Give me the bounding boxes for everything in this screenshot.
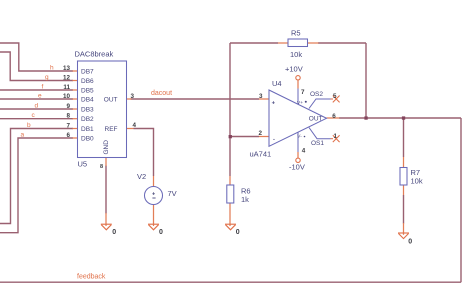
svg-text:dacout: dacout [151, 90, 172, 97]
svg-text:3: 3 [131, 93, 135, 100]
svg-text:1k: 1k [241, 195, 249, 204]
svg-text:10k: 10k [411, 177, 423, 186]
svg-text:V2: V2 [137, 172, 146, 181]
svg-text:0: 0 [112, 229, 116, 236]
svg-text:GND: GND [103, 140, 110, 155]
svg-text:7: 7 [301, 89, 305, 96]
svg-text:0: 0 [159, 229, 163, 236]
svg-text:0: 0 [408, 238, 412, 245]
svg-text:8: 8 [66, 113, 70, 120]
svg-text:5: 5 [333, 93, 337, 100]
svg-text:OS2: OS2 [310, 91, 323, 98]
svg-text:-10V: -10V [289, 163, 305, 172]
svg-text:REF: REF [105, 126, 118, 133]
svg-text:DB5: DB5 [81, 88, 94, 95]
svg-text:+10V: +10V [285, 65, 303, 74]
svg-text:uA741: uA741 [250, 150, 272, 159]
svg-text:0: 0 [236, 229, 240, 236]
svg-text:R5: R5 [291, 29, 301, 38]
svg-text:d: d [35, 103, 39, 110]
svg-text:h: h [50, 65, 54, 72]
svg-text:+: + [152, 191, 155, 197]
svg-text:g: g [45, 74, 49, 81]
svg-text:7: 7 [66, 123, 70, 130]
svg-text:b: b [27, 122, 31, 129]
svg-text:V-: V- [297, 134, 302, 140]
svg-text:9: 9 [66, 103, 70, 110]
svg-text:U5: U5 [78, 159, 88, 168]
svg-text:U4: U4 [272, 79, 282, 88]
svg-text:1: 1 [334, 133, 338, 140]
svg-text:11: 11 [63, 84, 70, 91]
svg-text:DB2: DB2 [81, 116, 94, 123]
svg-text:OUT: OUT [309, 116, 323, 123]
svg-text:V+: V+ [297, 100, 303, 106]
svg-text:4: 4 [133, 122, 137, 129]
svg-text:DB0: DB0 [81, 136, 94, 143]
svg-text:f: f [42, 84, 44, 91]
svg-text:DB3: DB3 [81, 107, 94, 114]
svg-text:feedback: feedback [77, 274, 106, 281]
svg-text:DB7: DB7 [81, 69, 94, 76]
svg-text:OS1: OS1 [311, 140, 324, 147]
svg-text:6: 6 [332, 113, 336, 120]
svg-text:DAC8break: DAC8break [75, 50, 114, 59]
svg-text:12: 12 [63, 75, 71, 82]
svg-text:13: 13 [63, 65, 71, 72]
svg-text:a: a [21, 132, 25, 139]
svg-text:-: - [273, 136, 275, 142]
svg-text:3: 3 [259, 93, 263, 100]
svg-text:DB1: DB1 [81, 126, 94, 133]
svg-text:OUT: OUT [104, 97, 118, 104]
svg-text:6: 6 [66, 132, 70, 139]
svg-text:4: 4 [302, 147, 306, 154]
svg-text:10: 10 [63, 93, 71, 100]
svg-text:2: 2 [259, 130, 263, 137]
svg-text:e: e [38, 93, 42, 100]
svg-text:10k: 10k [290, 50, 302, 59]
svg-text:7V: 7V [168, 189, 177, 198]
svg-text:DB4: DB4 [81, 97, 94, 104]
svg-text:DB6: DB6 [81, 78, 94, 85]
svg-text:8: 8 [100, 164, 103, 170]
